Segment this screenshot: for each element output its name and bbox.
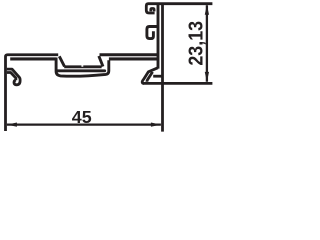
svg-text:23,13: 23,13 — [186, 21, 208, 66]
svg-text:45: 45 — [72, 107, 92, 127]
